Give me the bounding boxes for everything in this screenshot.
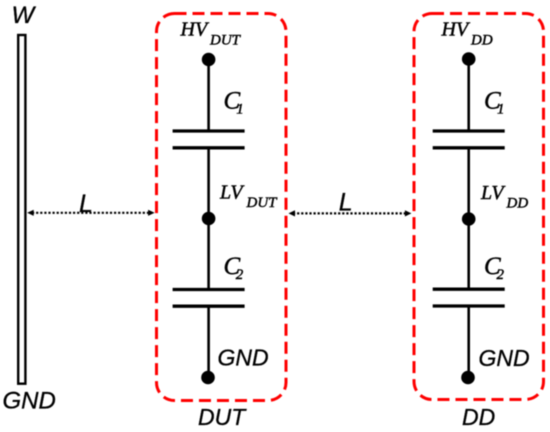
svg-text:GND: GND — [218, 345, 269, 371]
svg-text:DUT: DUT — [246, 195, 279, 211]
wire C2 to GND (DD) — [467, 306, 470, 378]
node LV_DD — [462, 212, 476, 226]
svg-text:HV: HV — [441, 19, 471, 41]
svg-text:GND: GND — [3, 388, 56, 415]
label C2 (DUT) — [224, 253, 244, 283]
DD enclosure (red dashed box) — [414, 14, 544, 400]
svg-text:LV: LV — [480, 182, 506, 204]
svg-text:1: 1 — [497, 102, 505, 118]
label LV_DUT — [219, 182, 278, 212]
svg-text:HV: HV — [180, 19, 210, 41]
svg-text:DD: DD — [462, 404, 495, 430]
capacitor C1 (DUT) — [173, 131, 245, 148]
svg-text:DD: DD — [470, 33, 493, 49]
wire C2 to GND (DUT) — [207, 306, 210, 377]
label LV_DD — [480, 182, 528, 211]
wire C1 to LV_DD — [467, 148, 470, 219]
wire C1 to LV_DUT — [207, 148, 210, 219]
label C2 (DD) — [484, 253, 505, 283]
svg-text:1: 1 — [236, 102, 244, 118]
node HV_DUT — [202, 53, 216, 67]
node GND (DD) — [461, 371, 475, 385]
wire LV_DD to C2 — [467, 219, 470, 289]
label HV_DD — [441, 19, 493, 49]
label C1 (DUT) — [224, 88, 244, 118]
DUT enclosure (red dashed box) — [157, 14, 287, 401]
svg-text:DD: DD — [506, 195, 529, 211]
capacitor C2 (DUT) — [173, 290, 245, 307]
label C1 (DD) — [484, 87, 505, 117]
dimension arrow L (plate to DUT) — [27, 210, 154, 216]
node HV_DD — [462, 52, 476, 66]
svg-text:GND: GND — [479, 345, 530, 371]
dimension arrow L (DUT to DD) — [289, 210, 412, 216]
svg-text:W: W — [12, 2, 37, 29]
capacitor C2 (DD) — [433, 289, 505, 306]
node GND (DUT) — [201, 371, 215, 385]
svg-text:DUT: DUT — [209, 33, 242, 49]
svg-text:DUT: DUT — [198, 404, 247, 430]
wire HV_DD to C1 — [467, 59, 470, 131]
wire HV_DUT to C1 — [207, 60, 210, 132]
capacitor C1 (DD) — [433, 131, 505, 148]
svg-text:2: 2 — [236, 267, 244, 283]
wire LV_DUT to C2 — [207, 219, 210, 290]
label HV_DUT — [180, 19, 242, 49]
svg-text:L: L — [339, 189, 353, 217]
node LV_DUT — [202, 212, 216, 226]
svg-text:L: L — [79, 190, 93, 218]
plate W (left ground electrode) — [18, 35, 25, 384]
svg-text:2: 2 — [497, 267, 505, 283]
svg-text:LV: LV — [219, 182, 245, 204]
